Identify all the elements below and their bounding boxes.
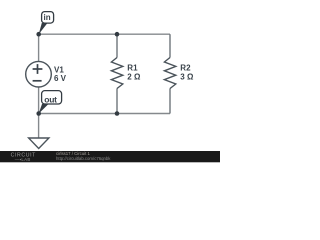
watermark bar	[0, 151, 220, 162]
junction R1 bottom	[115, 111, 120, 116]
resistor R1	[111, 58, 122, 89]
resistor R2	[164, 58, 175, 89]
wire top rail node A to R2 top	[39, 33, 170, 35]
svg-text:—▪LAB: —▪LAB	[15, 157, 31, 162]
value label R2 3 ohm	[180, 64, 194, 82]
wire V1 bottom to node B	[38, 87, 40, 114]
ground	[29, 138, 49, 149]
wire R1 bottom lead	[116, 89, 118, 114]
svg-text:R1: R1	[127, 64, 138, 73]
svg-text:in: in	[44, 13, 51, 22]
value label R1 2 ohm	[127, 64, 141, 82]
wire R1 top lead	[116, 34, 118, 57]
svg-text:http://circuitlab.com/c76qnbk: http://circuitlab.com/c76qnbk	[56, 156, 111, 161]
wire R2 top lead	[169, 34, 171, 57]
junction node B	[36, 111, 41, 116]
junction node A	[36, 32, 41, 37]
wire node A down to V1 top	[38, 34, 40, 61]
svg-text:3 Ω: 3 Ω	[180, 73, 194, 82]
voltage source V1	[26, 61, 52, 87]
wire bottom rail node B to R2 bottom	[39, 113, 170, 115]
node label in	[39, 12, 54, 35]
node label out	[39, 91, 62, 114]
svg-text:6 V: 6 V	[54, 74, 67, 83]
svg-text:R2: R2	[180, 64, 191, 73]
svg-text:2 Ω: 2 Ω	[127, 73, 141, 82]
wire node B down to ground	[38, 114, 40, 139]
value label V1 6 V	[54, 66, 67, 84]
junction R1 top	[115, 32, 120, 37]
wire R2 bottom lead	[169, 89, 171, 114]
svg-text:out: out	[44, 94, 57, 104]
